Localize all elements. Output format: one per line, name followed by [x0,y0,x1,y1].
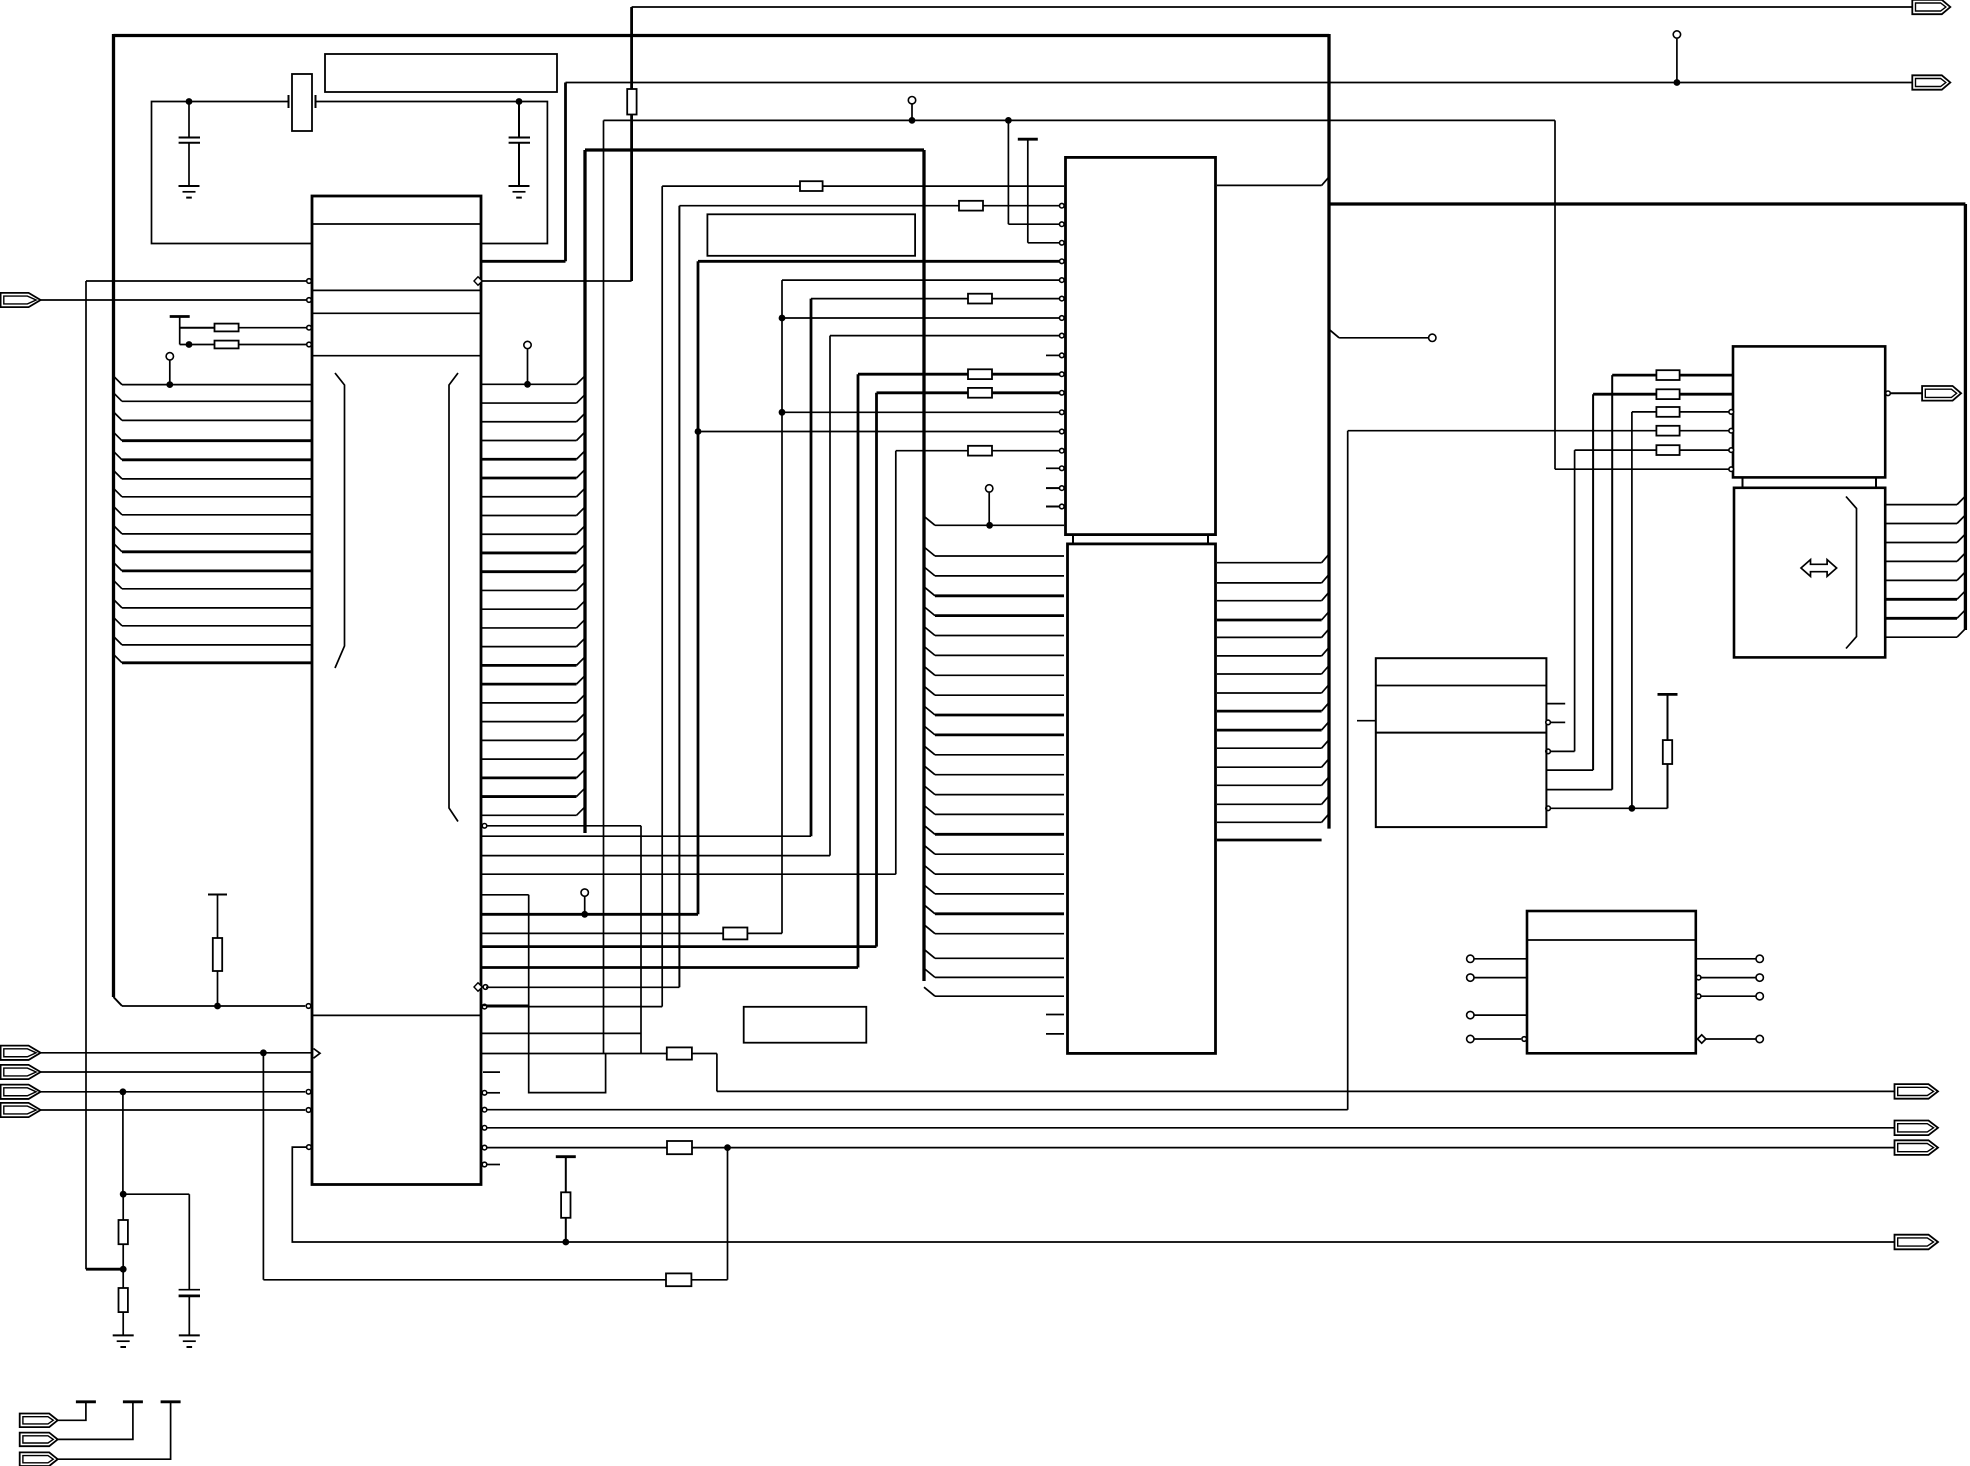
B5 left stub [1357,720,1376,722]
crystal Y1 right electrode [315,95,317,108]
staircase vertical x=679 [678,206,680,988]
vertical x=1348 [1347,431,1349,1110]
thick bus top edge y=148 [585,148,924,151]
resistor R11 [627,89,636,115]
vertical bus x=585 [583,150,586,833]
U1 internal bus bracket left [335,373,345,668]
U3 pin3 circle [1729,410,1734,415]
left connector arrow PAD4 [1,1085,41,1099]
U4 right bundle wires with bus rips [1885,504,1957,506]
resistor R15 vertical [122,1269,124,1288]
U1 right pin stub y=1164.5 [482,1162,487,1167]
junction dot on first right bundle wire [524,381,531,388]
U2 right bundle wires with bus rips [1217,562,1322,564]
middle bus bundle wires with bus rips [935,524,1064,526]
net y=1091 to right arrow [717,1090,1894,1092]
vertical x=1632 [1631,412,1633,808]
resistor R1 [215,324,239,332]
B5 divider 2 [1376,732,1547,734]
T-stub power bar above U2 pin3 [1018,138,1038,141]
net to U2 pin13 [695,428,702,435]
capacitor C2 [509,137,530,139]
net to U2 pin1 with resistor R5 [679,205,959,207]
U1 divider 4 [312,355,481,357]
junction dot x=584 y=914 [581,911,588,918]
vertical net x=123 [122,1092,124,1194]
staircase vertical x=895 [895,451,897,875]
wire x=830 bottom to U1 edge [481,855,830,857]
U1 right edge diamond pin y=281 [474,277,482,285]
B6 right wires and terminal circles [1696,975,1701,980]
junction dot x=263 y=1052 [260,1049,267,1056]
ground for C2 [509,185,530,187]
wire x=876 bottom to U1 edge [481,945,877,948]
wire x=895 bottom to U1 edge [481,873,896,875]
vertical bus x=924 [922,150,925,981]
wire x=1632 bottom to B5 pin circle [1551,807,1632,809]
junction dot y=120 x=912 [909,117,916,124]
label box 2 (empty) [707,214,915,256]
net to U3 pin5 with resistor R25 [1575,449,1657,451]
staircase vertical x=858 thick [857,374,860,967]
U1 right pin stub y=1072 [483,1071,500,1073]
thick vertical x=698 [697,261,700,914]
U1 pin circle y=1006 [306,1004,311,1009]
staircase vertical x=782 [781,280,783,933]
IC U2 upper section body [1066,157,1216,534]
net U1 edge to resistor R10 to x=782 [481,932,723,934]
U1 divider 2 [312,289,481,291]
junction dot top rail x=1008 [1005,117,1012,124]
power bus frame left edge [112,34,115,997]
thick net to U2 pin4 [698,260,1059,263]
node dot at C1 [186,98,193,105]
U2 lower stub pin y=1033.9 [1046,1033,1064,1035]
wire PAD4 to U1 pin circle [41,1091,306,1093]
vertical net x=263 from clock wire [262,1053,264,1280]
junction dot x=217 y=1006 [214,1003,221,1010]
U1 pin1 circle [307,279,312,284]
net U1 diamond y=281 to x=632 [482,280,632,282]
wire x=1574 bottom to B5 pin circle [1551,750,1575,752]
staircase vertical x=876 thick [875,393,878,947]
power T-bar 2 [123,1400,143,1403]
B5 right stub 1 [1546,703,1565,705]
wire to resistor R1 [180,327,215,329]
far right vertical bus [1964,204,1967,630]
U3 output pin circle and arrow [1886,391,1891,396]
B5 divider 1 [1376,685,1547,687]
vertical x=1593 [1592,394,1594,770]
wire to resistor R2 [180,344,215,346]
U1 divider 5 [312,1014,481,1016]
net y=186 to U2 left edge with resistor R12 [662,185,800,187]
junction dot x=123 y=1091.8 [120,1088,127,1095]
wire R1 to U1 pin3 [239,327,306,329]
ground for C1 [179,185,200,187]
wire net A to U1 pin1 [86,280,306,282]
T-stub power bar near U1 pin3 [170,315,190,318]
U1 pin y=1006 net from bus bevel [122,1005,305,1007]
net to U3 pin4 with resistor R24 [1348,430,1657,432]
ground for C3 [179,1334,200,1336]
IC U4 body [1734,488,1885,658]
bus rip to open circle terminal y=338 [1329,329,1339,338]
U4 internal bus bracket [1846,497,1857,649]
thick net to U3 pin1 with resistor R20 [1612,374,1656,377]
B5 right pin circle with stub [1546,720,1551,725]
thick net U1 right to corner x=565 [481,260,566,263]
vertical x=1574 [1574,450,1576,751]
top rail y=7 to right arrow [632,6,1912,8]
capacitor C1 [179,137,200,139]
wire crystal right to C2 node [316,101,520,103]
net to U2 pin7 [779,315,786,322]
U1 right pin circle y=1147.6 net with resistor R17 to right arrow [482,1145,487,1150]
open circle terminal x=1677 [1673,31,1680,38]
U1 right bus bundle wires with bus rips [481,383,577,385]
wire y=1280 through resistor R16 [263,1279,666,1281]
resistor R13 top tick [208,894,227,896]
rail y=82.5 to right arrow [566,82,1912,84]
vertical x=1612 [1611,375,1613,789]
thick net to U2 pin11 with resistor R8 [877,391,969,394]
U2 pin circles left edge [1060,203,1065,208]
IC U3 body [1733,346,1885,477]
wire osc loop right side [481,102,547,244]
U4 bidirectional arrow symbol [1801,560,1837,577]
staircase vertical x=811 [810,299,813,837]
wire PAD5 to U1 pin circle [41,1109,306,1111]
resistor R23 vertical with T-stub [1658,693,1678,696]
power bus frame right edge (vertical bus) [1327,34,1330,829]
bottom connector arrow PADB2 [20,1433,58,1447]
net to U2 pin6 with resistor R6 [811,298,968,300]
net y=186 right of U2 with bus rip [1217,184,1322,186]
crystal Y1 left electrode [288,95,290,108]
wire x=811 bottom to U1 edge [481,835,811,837]
net to U3 pin3 with resistor R22 [1632,411,1657,413]
U2 upper bottom corner tabs [1072,535,1074,543]
junction dot x=565 y=1242 [562,1239,569,1246]
U2 pin16 stub thick [1046,487,1059,489]
crystal Y1 body [292,74,312,131]
wire PAD1 to U1 pin2 [41,299,306,301]
vertical x=641 [640,826,642,1054]
vertical x=727 to dot y=1147 [727,1148,729,1280]
ground for R15 [113,1334,134,1336]
junction dot x=1632 y=808 [1629,805,1636,812]
vertical net x=632 with resistor R11 [630,7,633,281]
U2 right bundle last thick wire [1217,839,1322,842]
block B6 body [1527,911,1696,1053]
rail y=120.4 [604,119,1556,121]
junction dot on first left bundle wire [166,381,173,388]
label box (empty) [325,54,557,92]
thick vertical x=565 [564,83,567,262]
junction dot y=82 x=1677 [1674,79,1681,86]
left connector arrow PAD2 [1,1046,41,1060]
long vertical net A x=86 [85,281,87,1269]
U1 right pin circle y=1092.8 with stub [482,1091,487,1096]
resistor R18 vertical [565,1157,567,1193]
U1 right edge diamond pin with circle y=987 [474,983,482,991]
net to U2 pin5 [782,279,1059,281]
thick bus wire y=204 to far right [1329,202,1965,205]
long vertical x=603 [603,120,605,1053]
bottom connector arrow PADB3 [20,1452,58,1466]
right connector arrow PAD_R4 [1895,1140,1939,1155]
U3 pin6 circle [1729,467,1734,472]
left connector arrow PAD5 [1,1103,41,1117]
right connector arrow PAD_R3 [1895,1121,1939,1136]
junction dot on first mid bundle wire [986,522,993,529]
thick net to U2 pin10 with resistor R7 [858,373,968,376]
power bus frame top edge [114,34,1330,37]
open circle terminal above mid bundle [986,485,993,492]
wire x=662 bottom to U1 right edge pin [487,1006,662,1008]
wire PAD2 to U1 clock pin [41,1052,312,1054]
power T-bar 3 [161,1400,181,1403]
U2 lower stub pin y=1014.5 [1046,1014,1064,1016]
left connector arrow PAD1 [1,293,41,307]
block B5 body [1376,658,1547,827]
left bus bundle wires with bus rips [122,384,312,386]
U1 divider 3 [312,312,481,314]
U1 pin4 circle [307,342,312,347]
capacitor C3 [179,1289,200,1291]
right connector arrow PAD_T1 [1912,0,1950,14]
U3 pin5 circle [1729,448,1734,453]
wire PAD3 to U1 [41,1071,312,1073]
U1 right pin circle y=1109.7 long net to U3 R4 [482,1107,487,1112]
T-stub power bar x=565 [556,1155,576,1158]
net to U2 pin2 from top rail [1007,120,1009,224]
power T-bar 1 [76,1400,96,1403]
wire crystal left to C1 node [189,101,289,103]
B6 left terminal circles and wires [1467,955,1474,962]
staircase vertical x=830 [829,336,831,856]
T-stub stem [179,317,181,345]
U-link wire x=530 x=605 [481,894,529,896]
U1 right pin circle y=1128 long net to right arrow [482,1126,487,1131]
right connector arrow PAD_T2 [1912,75,1950,89]
junction dot x=123 y=1269 [120,1266,127,1273]
branch wire to capacitor C3 [123,1193,189,1195]
net to U2 pin8 [830,335,1059,337]
wire R2 to U1 pin4 [239,344,306,346]
U2 pin15 stub [1046,467,1059,469]
thick wire net A bottom corner to dot [86,1268,123,1271]
bottom connector arrow PADB1 [20,1414,58,1428]
U3 bottom corner tabs [1742,477,1744,486]
B6 header divider [1527,939,1696,941]
net y=1053 from U1 with resistor R19 [481,1053,667,1055]
resistor R2 [215,341,239,349]
U1 right pin circle y=825.8 to x=641 [482,824,487,829]
U3 pin4 circle [1729,428,1734,433]
junction dot x=725 y=1147 [724,1144,731,1151]
U1 pin2 circle [307,298,312,303]
right connector arrow PAD_R2 [1895,1084,1939,1099]
left connector arrow PAD3 [1,1065,41,1079]
U2 pin9 stub [1046,354,1059,356]
staircase vertical x=662 [661,186,663,1007]
wire osc loop left side [152,102,313,244]
IC U2 lower section body [1068,544,1216,1054]
resistor R14 vertical [122,1194,124,1220]
open circle terminal above right bundle [524,341,531,348]
IC U1 body [312,196,481,1185]
bus frame left bottom bevel [114,997,123,1006]
long vertical x=1555 [1554,120,1556,469]
wire x=679 bottom to U1 edge [486,986,679,988]
junction dot pin4 branch [186,341,193,348]
vertical x=717 [716,1054,718,1092]
label box 3 (empty) [744,1007,867,1043]
wire x=858 bottom to U1 edge [481,966,858,969]
net to U3 pin6 [1555,468,1730,470]
node dot at C2 [516,98,523,105]
open circle terminal x=912 [908,97,915,104]
U1 left pin circle y=1147 net down and right to arrow [307,1145,312,1150]
open circle terminal x=584 [581,889,588,896]
U1 header divider [312,223,481,225]
net to U2 pin12 [779,409,786,416]
wire x=1593 bottom to B5 [1546,769,1593,771]
U1 clock input triangle [314,1049,321,1059]
U1 pin3 circle [307,325,312,330]
net y=1033 from U1 to x=641 [481,1032,641,1034]
net to U2 pin14 with resistor R9 [896,450,968,452]
pull resistor R13 vertical [217,895,219,939]
thick wire y=914 from U1 to x=698 [481,913,698,916]
U1 internal bus bracket right [449,373,458,822]
junction dot x=123 y=1194 [120,1191,127,1198]
open circle terminal above left bundle [166,353,173,360]
thick net to U3 pin2 with resistor R21 [1593,393,1656,396]
right connector arrow PAD_R5 [1895,1235,1939,1250]
wire x=1612 bottom to B5 [1546,789,1612,791]
U2 pin17 stub thick [1046,506,1059,508]
